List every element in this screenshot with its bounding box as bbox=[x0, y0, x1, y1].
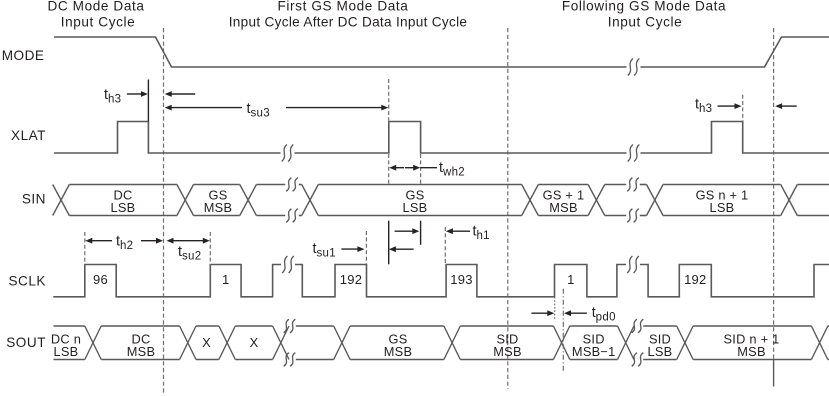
svg-text:twh2: twh2 bbox=[439, 160, 465, 179]
svg-text:LSB: LSB bbox=[710, 200, 735, 215]
dashed guide line right (following GS boundary) bbox=[773, 28, 775, 360]
svg-text:XLAT: XLAT bbox=[11, 128, 46, 143]
dotted line SCLK second-1 rising below (t_pd0) bbox=[554, 297, 556, 320]
svg-text:th3: th3 bbox=[104, 87, 121, 106]
svg-text:MSB: MSB bbox=[549, 200, 577, 215]
svg-text:193: 193 bbox=[450, 272, 472, 287]
dashed guide line at DC->GS boundary bbox=[163, 28, 165, 396]
t_h2 annotation bbox=[91, 240, 112, 242]
solid measure line below SIN at 420.6 bbox=[420, 221, 422, 245]
dashed edge line SCLK 96 rising (t_h2) bbox=[84, 232, 86, 265]
svg-text:1: 1 bbox=[222, 272, 229, 287]
svg-text:Input Cycle After DC Data Inp: Input Cycle After DC Data Input Cycle bbox=[229, 15, 468, 30]
svg-text:tsu3: tsu3 bbox=[247, 101, 270, 120]
dashed edge line XLAT pulse3 falling (t_h3 right) bbox=[742, 95, 744, 122]
dashed edge line SCLK 192 falling (t_su1) bbox=[365, 231, 367, 264]
SIN bus labels bbox=[111, 188, 749, 215]
XLAT waveform bbox=[54, 122, 281, 154]
svg-text:Following GS Mode Data: Following GS Mode Data bbox=[562, 0, 726, 14]
dashed edge line SCLK 1 rising (t_su2) bbox=[209, 232, 211, 265]
dashed guide line mid (GS cycle boundary) bbox=[507, 28, 509, 389]
svg-text:tsu2: tsu2 bbox=[178, 244, 201, 263]
svg-text:LSB: LSB bbox=[54, 344, 79, 359]
XLAT break squiggle 1 bbox=[282, 145, 287, 162]
solid guide stub below SOUT right bbox=[773, 360, 775, 387]
svg-text:X: X bbox=[202, 335, 211, 350]
svg-text:192: 192 bbox=[684, 272, 706, 287]
t_su3 annotation bbox=[171, 107, 242, 109]
t_h1 annotation bbox=[452, 230, 470, 232]
svg-text:LSB: LSB bbox=[111, 200, 136, 215]
measurement line at XLAT pulse1 falling edge (t_h3 left) bbox=[147, 80, 149, 122]
svg-text:192: 192 bbox=[340, 272, 362, 287]
svg-text:MSB: MSB bbox=[127, 344, 155, 359]
t_pd0 annotation bbox=[531, 312, 548, 314]
svg-text:MSB: MSB bbox=[493, 344, 521, 359]
svg-text:MODE: MODE bbox=[2, 48, 45, 63]
svg-text:96: 96 bbox=[93, 272, 108, 287]
svg-text:LSB: LSB bbox=[403, 200, 428, 215]
MODE break squiggle bbox=[628, 59, 633, 76]
title: DC Mode Data Input Cycle bbox=[47, 0, 144, 30]
dashed edge line XLAT pulse2 rising below bbox=[388, 154, 390, 184]
svg-text:th1: th1 bbox=[473, 224, 490, 243]
arrow pair at XLAT pulse2 extensions bbox=[395, 230, 414, 232]
title: First GS Mode Data Input Cycle After DC Data Input Cycle bbox=[229, 0, 468, 30]
XLAT break squiggle 2 bbox=[628, 145, 633, 162]
SCLK break squiggle 1 bbox=[282, 256, 287, 273]
svg-text:tpd0: tpd0 bbox=[592, 305, 616, 324]
SOUT bus labels bbox=[51, 332, 780, 359]
svg-text:X: X bbox=[250, 335, 259, 350]
svg-text:1: 1 bbox=[567, 272, 574, 287]
dashed edge line SCLK 193 rising (t_h1) bbox=[444, 227, 446, 264]
SCLK clock numbers bbox=[93, 272, 707, 287]
svg-text:Input Cycle: Input Cycle bbox=[608, 15, 683, 30]
svg-text:tsu1: tsu1 bbox=[313, 241, 336, 260]
svg-text:SOUT: SOUT bbox=[6, 335, 46, 350]
svg-text:SIN: SIN bbox=[22, 192, 46, 207]
SCLK break squiggle 2 bbox=[627, 256, 632, 273]
SCLK waveform bbox=[53, 265, 281, 297]
t_wh2 annotation bbox=[395, 167, 404, 169]
svg-text:LSB: LSB bbox=[648, 344, 673, 359]
svg-text:MSB: MSB bbox=[204, 200, 232, 215]
svg-text:th2: th2 bbox=[116, 234, 133, 253]
svg-text:MSB: MSB bbox=[737, 344, 765, 359]
svg-text:MSB: MSB bbox=[384, 344, 412, 359]
svg-text:MSB−1: MSB−1 bbox=[572, 344, 616, 359]
svg-text:th3: th3 bbox=[695, 97, 712, 116]
t_su2 annotation bbox=[173, 240, 187, 242]
svg-text:SCLK: SCLK bbox=[8, 274, 46, 289]
svg-text:DC Mode Data: DC Mode Data bbox=[47, 0, 144, 14]
SIN bus waveform bbox=[53, 185, 70, 216]
dash-dot line SOUT transition (t_pd0) bbox=[562, 289, 564, 373]
title: Following GS Mode Data Input Cycle bbox=[562, 0, 726, 30]
solid measure line below SIN at 388.7 bbox=[388, 221, 390, 265]
svg-text:First GS Mode Data: First GS Mode Data bbox=[278, 0, 409, 14]
svg-text:Input Cycle: Input Cycle bbox=[61, 15, 136, 30]
SOUT bus waveform bbox=[85, 326, 101, 360]
dashed edge line XLAT pulse2 rising above bbox=[388, 79, 390, 121]
dashed edge line XLAT pulse2 falling below bbox=[420, 154, 422, 184]
MODE waveform bbox=[54, 37, 627, 67]
